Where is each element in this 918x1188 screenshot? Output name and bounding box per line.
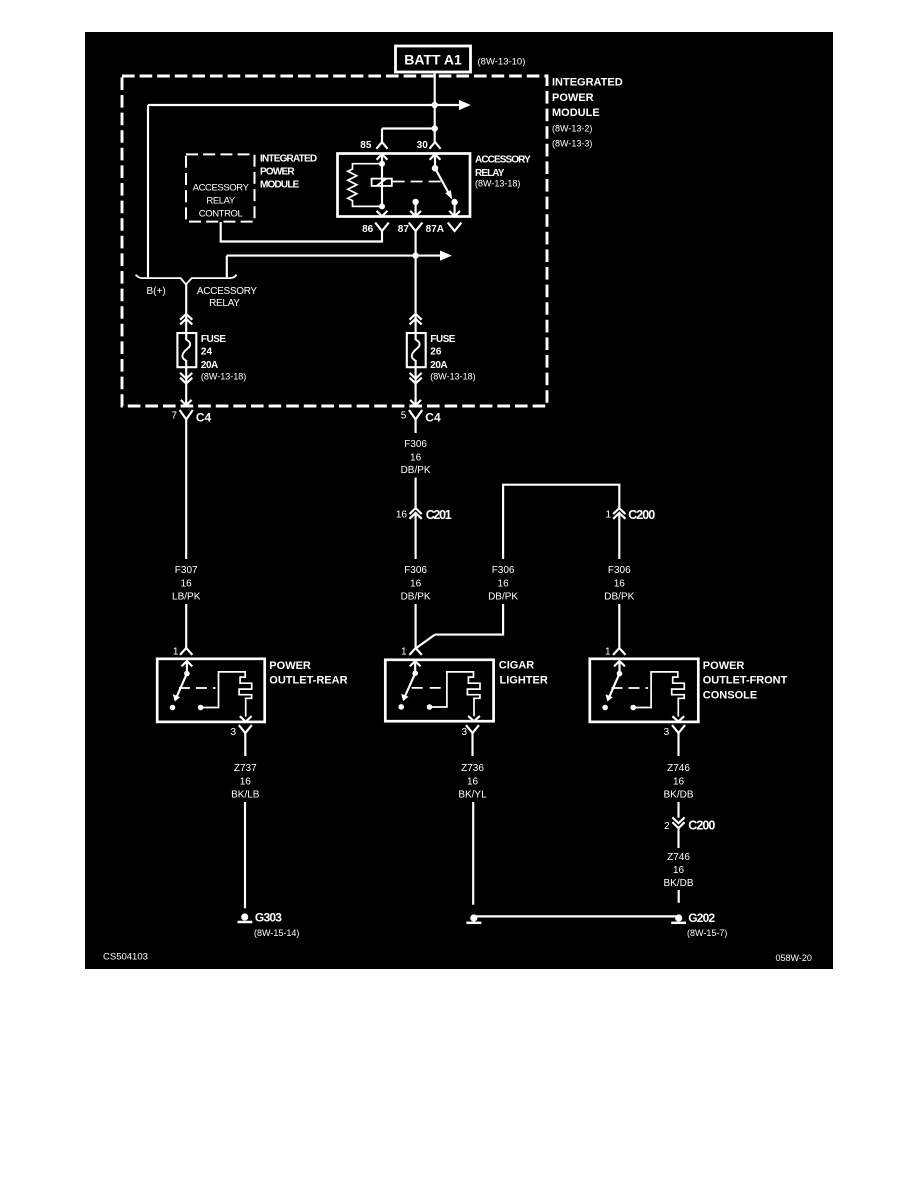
svg-text:85: 85 (360, 140, 372, 151)
svg-text:C4: C4 (425, 410, 441, 424)
ground G303 symbol (238, 911, 300, 939)
wire into C201 (415, 478, 417, 509)
svg-text:F306: F306 (608, 565, 631, 576)
svg-text:BK/LB: BK/LB (231, 790, 260, 801)
wire down to ground G303 (244, 802, 246, 908)
svg-text:87: 87 (398, 224, 410, 235)
relay switch common node (30) (432, 155, 438, 172)
wire output down to brace (226, 256, 228, 278)
connector C201 double chevron (396, 508, 452, 522)
wire label F306 16 DB/PK (below C201) (401, 565, 431, 603)
switch blade with arrowhead (609, 674, 619, 697)
svg-text:C4: C4 (196, 410, 212, 424)
fuse 26 output double chevron (410, 373, 422, 384)
wire into C200 pin 2 (677, 802, 679, 818)
svg-text:(8W-13-10): (8W-13-10) (478, 57, 526, 68)
svg-text:G303: G303 (255, 911, 282, 925)
power outlet rear internals (170, 661, 252, 722)
relay 30 internal entry chevron (430, 154, 441, 160)
svg-text:F306: F306 (404, 565, 427, 576)
svg-text:(8W-15-7): (8W-15-7) (687, 928, 727, 938)
svg-text:DB/PK: DB/PK (488, 592, 518, 603)
wire relay 87 down to output node (415, 231, 417, 256)
fuse 24 box with element (177, 333, 196, 367)
terminal 87 chevron and label (398, 223, 423, 235)
relay coil resistor zigzag (348, 164, 382, 207)
wire C201 down (415, 513, 417, 559)
svg-text:16: 16 (498, 578, 510, 589)
svg-text:OUTLET-REAR: OUTLET-REAR (269, 674, 347, 686)
pin 3 connector below power outlet rear (231, 725, 252, 756)
wire label Z736 16 BK/YL (458, 763, 487, 801)
ARC dashed box: accessory relay control (186, 154, 255, 221)
svg-text:MODULE: MODULE (260, 180, 300, 191)
svg-text:RELAY: RELAY (475, 168, 505, 179)
wire label Z746 16 BK/DB (upper) (663, 763, 693, 801)
switch contact node (170, 705, 176, 711)
wire label F306 16 DB/PK (above C201) (401, 439, 431, 476)
svg-text:1: 1 (401, 646, 407, 657)
ground G202 symbol (671, 911, 727, 938)
pin 1 connector fork at cigar lighter (401, 646, 422, 657)
svg-text:(8W-13-18): (8W-13-18) (201, 372, 246, 382)
relay internal wire 85 to coil (381, 155, 383, 207)
svg-text:16: 16 (240, 776, 252, 787)
svg-text:FUSE: FUSE (201, 334, 227, 345)
svg-text:DB/PK: DB/PK (401, 465, 431, 476)
svg-text:F306: F306 (404, 439, 427, 450)
B(+) accessory relay brace (136, 275, 258, 310)
fuse 24 input double chevron (180, 314, 192, 325)
node junction to coil branch (432, 125, 438, 131)
heater element meander (430, 672, 481, 716)
svg-text:MODULE: MODULE (552, 107, 600, 119)
pin 3 connector below power outlet front (664, 725, 685, 756)
cigar lighter box (385, 660, 493, 721)
wire horizontal feed with continuation arrow (148, 100, 471, 110)
svg-text:CS504103: CS504103 (103, 951, 148, 962)
svg-text:B(+): B(+) (147, 286, 166, 297)
terminal 85 chevron and label (360, 140, 387, 151)
svg-text:16: 16 (673, 776, 685, 787)
wire to switch node (618, 661, 620, 674)
branch link horizontal wire (503, 485, 619, 559)
svg-text:POWER: POWER (260, 167, 295, 178)
wire C4 down (upper segment) (185, 427, 187, 559)
element contact node (630, 705, 636, 711)
wire branch to terminal 85 (382, 129, 435, 143)
svg-text:(8W-15-14): (8W-15-14) (254, 928, 299, 938)
cigar lighter label (499, 659, 548, 686)
svg-text:RELAY: RELAY (206, 196, 236, 207)
pin1 entry chevron (182, 661, 193, 666)
svg-text:24: 24 (201, 347, 213, 358)
svg-text:(8W-13-18): (8W-13-18) (430, 372, 475, 382)
svg-text:87A: 87A (426, 224, 444, 235)
svg-text:INTEGRATED: INTEGRATED (552, 77, 623, 89)
fuse 26 labels (430, 334, 475, 382)
svg-text:POWER: POWER (552, 92, 594, 104)
wire down to ground G202 (678, 890, 680, 903)
wire output horizontal with continuation arrow (227, 251, 452, 261)
pin 3 connector below cigar lighter (461, 725, 479, 756)
switch linkage dashed (612, 687, 649, 689)
svg-text:C200: C200 (628, 508, 655, 522)
svg-text:1: 1 (173, 646, 179, 657)
wire label F306 16 DB/PK (right) (604, 565, 634, 603)
cigar lighter internals (398, 661, 480, 721)
wire down to ground link (472, 802, 474, 905)
svg-text:86: 86 (362, 224, 374, 235)
connector C200 double chevron (pin 2) (664, 817, 715, 832)
C4 connector pin 5 symbol (401, 410, 441, 433)
connector C200 double chevron (pin 1) (605, 508, 655, 522)
svg-text:ACCESSORY: ACCESSORY (197, 286, 258, 297)
svg-text:16: 16 (467, 776, 479, 787)
svg-text:16: 16 (181, 578, 193, 589)
C4 boundary exit chevron pin 5 (410, 400, 421, 405)
wire down to power outlet rear pin 1 (185, 604, 187, 648)
svg-text:Z737: Z737 (234, 763, 257, 774)
wire C200 down (618, 513, 620, 559)
svg-text:1: 1 (605, 510, 611, 521)
svg-text:BK/DB: BK/DB (663, 878, 693, 889)
svg-text:RELAY: RELAY (209, 298, 240, 309)
svg-text:ACCESSORY: ACCESSORY (475, 154, 531, 165)
svg-text:F306: F306 (492, 565, 515, 576)
svg-text:3: 3 (461, 727, 467, 738)
svg-text:CONSOLE: CONSOLE (703, 690, 757, 702)
svg-text:16: 16 (673, 865, 685, 876)
wire relay 86 to ARC box (221, 222, 382, 242)
wire label Z737 16 BK/LB (231, 763, 260, 801)
svg-text:F307: F307 (175, 565, 198, 576)
wire from BATT A1 down to relay terminal 30 (434, 72, 436, 142)
power outlet front console box (590, 659, 699, 722)
battery feed box BATT A1 (396, 46, 526, 72)
svg-text:CONTROL: CONTROL (199, 209, 243, 220)
svg-text:G202: G202 (688, 911, 715, 925)
wire chevron to fuse box (185, 360, 187, 405)
fuse 24 output double chevron (180, 373, 192, 384)
wire down to power outlet front pin 1 (618, 604, 620, 648)
pin 1 connector fork at power outlet front (605, 646, 626, 657)
relay linkage dashed line (393, 181, 442, 183)
switch node (617, 671, 623, 677)
svg-text:DB/PK: DB/PK (401, 592, 431, 603)
IPM label (inner, by ARC box) (260, 154, 317, 191)
relay 87A contact node and stub (451, 199, 457, 216)
svg-text:LIGHTER: LIGHTER (500, 674, 548, 686)
svg-text:(8W-13-3): (8W-13-3) (552, 139, 592, 149)
element output chevron at box bottom (672, 716, 684, 721)
wire 87 output down to fuse 26 (415, 256, 417, 340)
relay 87A internal exit chevron (449, 211, 460, 216)
IPM boundary dashed box (122, 76, 547, 406)
fuse 26 box with element (407, 333, 426, 367)
svg-text:058W-20: 058W-20 (776, 953, 812, 963)
wire label F307 16 LB/PK (172, 565, 201, 603)
svg-text:ACCESSORY: ACCESSORY (193, 183, 250, 194)
element contact node (198, 705, 204, 711)
power outlet front internals (602, 661, 684, 722)
wire brace to fuse 24 (185, 285, 187, 341)
switch blade with arrowhead (177, 674, 187, 697)
svg-text:16: 16 (410, 452, 422, 463)
terminal 30 chevron and label (417, 140, 441, 151)
pin1 entry chevron (410, 661, 421, 666)
IPM label (right) (552, 77, 623, 149)
power outlet rear box (157, 659, 265, 722)
svg-text:16: 16 (614, 578, 626, 589)
svg-text:POWER: POWER (703, 660, 745, 672)
svg-text:5: 5 (401, 411, 407, 422)
relay 87 internal exit chevron (410, 211, 421, 216)
element contact node (427, 704, 433, 710)
relay node bottom of coil (379, 203, 385, 209)
svg-text:26: 26 (430, 347, 442, 358)
fuse 24 labels (201, 334, 246, 382)
svg-text:Z736: Z736 (461, 763, 484, 774)
svg-text:INTEGRATED: INTEGRATED (260, 154, 317, 165)
wire C200 pin2 down (677, 828, 679, 848)
svg-text:16: 16 (410, 578, 422, 589)
svg-text:20A: 20A (430, 360, 447, 371)
node junction at main feed (432, 102, 438, 108)
relay node top of coil (379, 161, 385, 167)
terminal 87A chevron and label (426, 223, 462, 235)
switch blade with arrowhead (405, 673, 415, 696)
svg-text:30: 30 (417, 140, 429, 151)
svg-text:7: 7 (171, 411, 177, 422)
svg-text:(8W-13-2): (8W-13-2) (552, 124, 592, 134)
svg-text:CIGAR: CIGAR (499, 659, 535, 671)
power outlet rear label (269, 660, 347, 687)
branch wire from F306 to C200 (top link) (435, 604, 503, 635)
node junction 87 output (412, 252, 418, 258)
svg-text:C200: C200 (688, 819, 715, 833)
switch contact node (398, 704, 404, 710)
relay 85 internal entry chevron (377, 154, 388, 160)
svg-text:C201: C201 (426, 508, 452, 522)
C4 connector pin 7 symbol (171, 410, 211, 427)
svg-text:Z746: Z746 (667, 852, 690, 863)
svg-text:2: 2 (664, 821, 670, 832)
wire to switch node (186, 661, 188, 674)
terminal 86 chevron and label (362, 223, 389, 235)
wire label F306 16 DB/PK (branch) (488, 565, 518, 603)
switch node (412, 670, 418, 676)
svg-text:20A: 20A (201, 360, 218, 371)
svg-text:(8W-13-18): (8W-13-18) (475, 179, 520, 189)
pin1 entry chevron (614, 661, 625, 666)
branch wire joining diagonal (416, 635, 435, 648)
power outlet front console label (703, 660, 788, 702)
svg-text:POWER: POWER (269, 660, 311, 672)
switch node (184, 671, 190, 677)
svg-text:BATT A1: BATT A1 (404, 52, 462, 68)
relay coil element box with slash (372, 179, 392, 187)
svg-text:BK/DB: BK/DB (663, 790, 693, 801)
svg-text:1: 1 (605, 646, 611, 657)
wire left vertical down to B(+) brace (147, 105, 149, 277)
C4 boundary exit chevron pin 7 (181, 400, 192, 405)
ground termination dot (cigar) (466, 914, 481, 922)
accessory relay box (338, 154, 471, 217)
element output chevron at box bottom (468, 716, 480, 721)
svg-text:3: 3 (664, 727, 670, 738)
pin 1 connector fork at power outlet rear (173, 646, 193, 657)
fuse 26 input double chevron (410, 314, 422, 325)
relay switch blade with arrowhead (435, 168, 452, 199)
wire down to cigar lighter pin 1 (415, 604, 417, 648)
relay 86 internal exit chevron (377, 211, 388, 216)
wire to switch node (414, 661, 416, 673)
wire chevron to fuse 26 box (415, 360, 417, 405)
accessory relay label (475, 154, 531, 188)
svg-text:OUTLET-FRONT: OUTLET-FRONT (703, 674, 788, 686)
switch linkage dashed (412, 687, 444, 689)
switch linkage dashed (179, 687, 216, 689)
svg-text:Z746: Z746 (667, 763, 690, 774)
wire label Z746 16 BK/DB (lower) (663, 852, 693, 889)
relay 87 node and stub (412, 199, 418, 216)
heater element meander (633, 672, 684, 717)
svg-text:FUSE: FUSE (430, 334, 456, 345)
svg-text:3: 3 (231, 727, 237, 738)
heater element meander (201, 672, 252, 717)
ground link wire (474, 915, 679, 917)
svg-text:LB/PK: LB/PK (172, 592, 201, 603)
svg-text:DB/PK: DB/PK (604, 592, 634, 603)
element output chevron at box bottom (240, 716, 252, 721)
switch contact node (602, 705, 608, 711)
svg-text:BK/YL: BK/YL (458, 790, 487, 801)
svg-text:16: 16 (396, 510, 408, 521)
